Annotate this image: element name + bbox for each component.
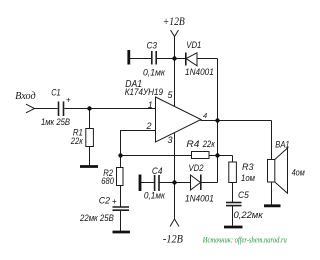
svg-text:4: 4 xyxy=(203,111,207,120)
svg-text:1: 1 xyxy=(148,100,153,110)
svg-text:+12В: +12В xyxy=(163,16,185,28)
svg-text:1мк 25В: 1мк 25В xyxy=(41,117,71,128)
svg-text:Источник: offer-shem.narod.ru: Источник: offer-shem.narod.ru xyxy=(202,236,287,245)
svg-text:4ом: 4ом xyxy=(292,168,306,179)
svg-text:VD1: VD1 xyxy=(186,40,201,51)
svg-text:C1: C1 xyxy=(51,88,60,99)
svg-text:C5: C5 xyxy=(238,190,249,201)
svg-text:+: + xyxy=(66,94,71,104)
svg-text:1N4001: 1N4001 xyxy=(185,194,214,205)
svg-text:0,1мк: 0,1мк xyxy=(143,67,165,78)
svg-text:22к: 22к xyxy=(70,136,83,147)
svg-text:-12В: -12В xyxy=(163,234,183,246)
svg-text:+: + xyxy=(112,196,117,206)
svg-text:C3: C3 xyxy=(147,41,158,52)
svg-text:C2: C2 xyxy=(99,196,111,207)
svg-text:22к: 22к xyxy=(202,139,215,150)
svg-text:C4: C4 xyxy=(152,166,163,177)
svg-text:1N4001: 1N4001 xyxy=(185,67,214,78)
svg-text:2: 2 xyxy=(146,121,152,131)
svg-text:0,22мк: 0,22мк xyxy=(234,210,264,221)
svg-text:22мк 25В: 22мк 25В xyxy=(79,213,114,224)
svg-text:Вход: Вход xyxy=(15,91,36,102)
svg-text:680: 680 xyxy=(101,176,114,187)
svg-text:VD2: VD2 xyxy=(189,163,205,174)
svg-text:К174УН19: К174УН19 xyxy=(125,87,164,98)
svg-text:BA1: BA1 xyxy=(275,139,289,150)
svg-text:R4: R4 xyxy=(186,139,199,150)
svg-text:3: 3 xyxy=(168,135,173,145)
svg-text:R3: R3 xyxy=(242,162,254,173)
svg-text:1ом: 1ом xyxy=(241,173,255,184)
svg-text:0,1мк: 0,1мк xyxy=(144,191,165,202)
